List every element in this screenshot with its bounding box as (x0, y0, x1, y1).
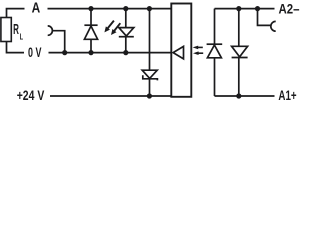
terminal A1+ label (278, 87, 296, 103)
junction dots (62, 6, 260, 99)
svg-text:+24 V: +24 V (17, 88, 45, 104)
node +24V label (17, 88, 45, 104)
junction A/V3 (147, 6, 152, 11)
wire 0V line horizontal (49, 52, 172, 54)
amplifier triangle (173, 46, 183, 59)
junction 24V/V3 (147, 93, 152, 98)
junction A2/V5 (236, 6, 241, 11)
opto LED V4 (214, 9, 216, 45)
junction A/V1 (88, 6, 93, 11)
connector socket right (271, 21, 276, 31)
wire A1 bottom line (215, 95, 275, 97)
module box (171, 4, 191, 97)
connector socket left (48, 26, 53, 35)
junction A2/connector (255, 6, 260, 11)
wire connector drop right (258, 9, 272, 26)
LED V2 status (125, 9, 127, 28)
junction 0V/V2 (123, 50, 128, 55)
svg-text:A2–: A2– (279, 1, 300, 17)
junction A1/V5 (236, 93, 241, 98)
svg-text:R: R (13, 22, 19, 38)
node A label (32, 1, 41, 17)
junction 0V/connector (62, 50, 67, 55)
svg-text:L: L (20, 32, 24, 42)
wire resistor bottom lead to 0V line (7, 42, 25, 53)
label RL value (13, 22, 23, 42)
svg-text:A: A (32, 1, 41, 17)
junction 0V/V1 (88, 50, 93, 55)
light arrows left (104, 21, 120, 35)
wire +24V line horizontal (50, 95, 171, 97)
zener diode V3 (149, 9, 151, 71)
light arrows right (193, 46, 204, 55)
wire A line horizontal (48, 8, 172, 10)
wire resistor top lead to A line (7, 9, 25, 18)
wire connector to 0V line (52, 31, 64, 53)
node 0V label (28, 45, 42, 61)
svg-text:A1+: A1+ (278, 87, 296, 103)
terminal A2- label (279, 1, 300, 17)
diode V1 freewheel (90, 9, 92, 26)
junction A/V2 (123, 6, 128, 11)
diode V5 reverse (238, 9, 240, 47)
svg-text:0 V: 0 V (28, 45, 42, 61)
resistor RL (1, 18, 11, 42)
wire A2 top line (215, 8, 275, 10)
